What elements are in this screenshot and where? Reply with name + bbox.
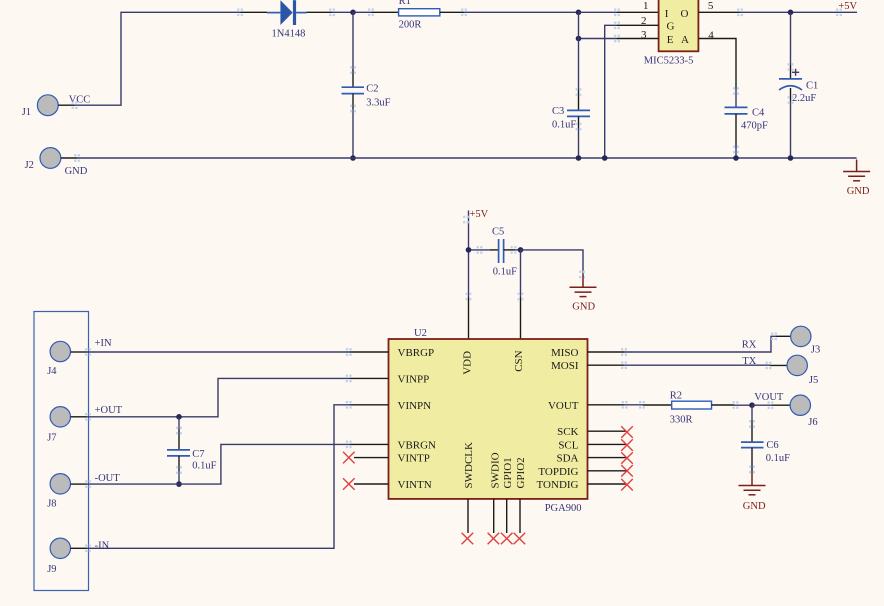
wire diode to junction bbox=[307, 9, 354, 17]
wire MOSI to J5 bbox=[588, 361, 788, 369]
svg-text:J1: J1 bbox=[22, 107, 31, 118]
svg-text:MOSI: MOSI bbox=[551, 360, 579, 372]
no-connect SWDIO bbox=[488, 499, 500, 544]
svg-text:+IN: +IN bbox=[95, 338, 112, 349]
svg-text:MIC5233-5: MIC5233-5 bbox=[644, 56, 694, 67]
svg-text:J9: J9 bbox=[47, 564, 56, 575]
svg-text:RX: RX bbox=[742, 340, 757, 351]
no-connect SCL bbox=[588, 439, 633, 451]
no-connect VINTN bbox=[343, 478, 389, 490]
svg-text:TX: TX bbox=[742, 356, 756, 367]
svg-text:J4: J4 bbox=[47, 366, 57, 377]
svg-text:5: 5 bbox=[708, 0, 714, 12]
svg-text:VINTP: VINTP bbox=[398, 453, 430, 465]
wire to MIC pin 1 bbox=[579, 9, 659, 17]
svg-text:C1: C1 bbox=[806, 81, 818, 92]
no-connect GPIO1 bbox=[501, 499, 513, 544]
connector J1 bbox=[22, 95, 75, 118]
wire junction to R1 bbox=[353, 9, 399, 17]
wire -OUT to VBRGN bbox=[85, 441, 388, 488]
svg-text:+5V: +5V bbox=[470, 209, 489, 220]
connector J9 bbox=[47, 538, 86, 575]
svg-text:J2: J2 bbox=[25, 160, 34, 171]
junction C4 bottom bbox=[733, 155, 739, 161]
svg-text:O: O bbox=[681, 8, 689, 20]
svg-text:VDD: VDD bbox=[461, 351, 473, 375]
junction C2 bottom bbox=[350, 155, 356, 161]
ground symbol middle bbox=[570, 275, 597, 312]
svg-text:GND: GND bbox=[65, 166, 88, 177]
no-connect TONDIG bbox=[588, 479, 633, 491]
diode D1 1N4148 bbox=[267, 0, 307, 39]
svg-text:3: 3 bbox=[641, 29, 647, 41]
svg-text:U2: U2 bbox=[414, 328, 427, 339]
svg-text:SCL: SCL bbox=[558, 439, 578, 451]
wire C1 branch bbox=[788, 12, 794, 79]
junction C5 right bbox=[518, 247, 524, 253]
junction C5 left bbox=[466, 247, 472, 253]
capacitor C3 0.1uF bbox=[552, 106, 590, 158]
no-connect GPIO2 bbox=[514, 499, 526, 544]
resistor R2 330R bbox=[670, 390, 712, 425]
junction C7 bottom bbox=[176, 481, 182, 487]
wire junction to J6 bbox=[752, 401, 790, 409]
svg-text:-IN: -IN bbox=[95, 541, 110, 552]
wire pin4 to C4 bbox=[698, 39, 738, 108]
svg-text:VOUT: VOUT bbox=[548, 400, 579, 412]
connector J8 bbox=[47, 474, 86, 510]
wire C2 branch bbox=[350, 12, 356, 87]
svg-text:MISO: MISO bbox=[551, 347, 579, 359]
regulator U1 MIC5233-5 bbox=[641, 0, 714, 67]
svg-text:SWDCLK: SWDCLK bbox=[463, 442, 475, 489]
IC U2 PGA900 bbox=[389, 328, 588, 514]
no-connect TOPDIG bbox=[588, 465, 633, 477]
junction C2 top bbox=[350, 10, 356, 16]
resistor R1 200R bbox=[399, 0, 440, 31]
connector J3 bbox=[791, 326, 821, 355]
svg-text:J7: J7 bbox=[47, 433, 56, 444]
svg-text:C6: C6 bbox=[766, 440, 778, 451]
svg-text:E: E bbox=[667, 34, 674, 46]
connector J6 bbox=[790, 395, 818, 428]
wire pin2 G net bbox=[605, 22, 659, 159]
capacitor C4 470pF bbox=[725, 107, 769, 158]
svg-text:470pF: 470pF bbox=[741, 121, 768, 132]
svg-text:C4: C4 bbox=[752, 108, 765, 119]
svg-text:0.1uF: 0.1uF bbox=[192, 461, 216, 472]
svg-text:GPIO1: GPIO1 bbox=[502, 457, 514, 488]
wire +OUT to VINPP bbox=[85, 375, 388, 421]
connector J2 bbox=[25, 148, 77, 172]
svg-text:C3: C3 bbox=[552, 106, 564, 117]
junction C1 bottom bbox=[788, 155, 794, 161]
no-connect SDA bbox=[588, 452, 633, 464]
svg-text:C2: C2 bbox=[366, 84, 378, 95]
junction G net to rail bbox=[602, 155, 608, 161]
svg-text:TONDIG: TONDIG bbox=[537, 479, 579, 491]
wire VOUT pin to R2 bbox=[588, 401, 672, 409]
wire VOUT to C6 bbox=[749, 405, 755, 442]
svg-text:+5V: +5V bbox=[838, 1, 857, 12]
svg-text:-OUT: -OUT bbox=[95, 473, 121, 484]
svg-text:C5: C5 bbox=[492, 227, 504, 238]
svg-text:SDA: SDA bbox=[556, 453, 578, 465]
svg-text:GND: GND bbox=[847, 186, 870, 197]
no-connect VINTP bbox=[343, 452, 389, 464]
junction C1 top bbox=[788, 10, 794, 16]
svg-text:J5: J5 bbox=[809, 375, 818, 386]
svg-text:VINTN: VINTN bbox=[398, 479, 432, 491]
svg-text:SWDIO: SWDIO bbox=[489, 452, 501, 488]
svg-text:J8: J8 bbox=[47, 499, 56, 510]
wire VCC: J1 to diode bbox=[72, 9, 267, 109]
svg-text:GND: GND bbox=[743, 501, 766, 512]
wire pin3 E net bbox=[579, 35, 659, 43]
wire C5 to ground bbox=[521, 250, 585, 278]
svg-text:G: G bbox=[667, 21, 675, 33]
svg-text:R1: R1 bbox=[399, 0, 411, 7]
svg-text:PGA900: PGA900 bbox=[545, 503, 582, 514]
svg-text:CSN: CSN bbox=[513, 350, 525, 371]
connector J4 bbox=[47, 341, 86, 377]
wire R2 to junction bbox=[712, 401, 753, 409]
svg-text:0.1uF: 0.1uF bbox=[766, 453, 790, 464]
svg-text:VINPP: VINPP bbox=[398, 373, 430, 385]
svg-text:A: A bbox=[681, 34, 689, 46]
svg-text:J3: J3 bbox=[811, 345, 820, 356]
junction R1 net / C3 column bbox=[576, 10, 582, 16]
capacitor C5 0.1uF bbox=[492, 227, 521, 278]
svg-text:VBRGP: VBRGP bbox=[398, 347, 435, 359]
wire -IN to VINPN bbox=[85, 401, 388, 552]
svg-text:3.3uF: 3.3uF bbox=[366, 97, 390, 108]
svg-text:SCK: SCK bbox=[557, 426, 578, 438]
svg-text:TOPDIG: TOPDIG bbox=[538, 466, 578, 478]
svg-text:GND: GND bbox=[572, 302, 595, 313]
wire R1 to junction bbox=[440, 9, 579, 17]
junction VOUT bbox=[749, 402, 755, 408]
svg-text:2.2uF: 2.2uF bbox=[792, 93, 816, 104]
wire +IN to VBRGP bbox=[85, 348, 388, 356]
ground symbol top right bbox=[843, 160, 870, 198]
svg-text:C7: C7 bbox=[192, 449, 204, 460]
svg-text:VINPN: VINPN bbox=[398, 400, 432, 412]
ground symbol C6 bbox=[739, 474, 766, 513]
junction C7 top bbox=[176, 414, 182, 420]
junction C3 bottom bbox=[576, 155, 582, 161]
svg-text:J6: J6 bbox=[808, 417, 817, 428]
wire pin5 +5V net bbox=[698, 9, 857, 17]
svg-text:330R: 330R bbox=[670, 415, 693, 426]
svg-text:4: 4 bbox=[708, 30, 714, 42]
svg-text:I: I bbox=[665, 8, 669, 20]
svg-text:R2: R2 bbox=[670, 390, 682, 401]
port rectangle J4-J9 bbox=[34, 312, 89, 591]
svg-text:VBRGN: VBRGN bbox=[398, 439, 437, 451]
svg-text:0.1uF: 0.1uF bbox=[493, 267, 517, 278]
svg-text:VCC: VCC bbox=[69, 95, 91, 106]
wire CSN bbox=[518, 250, 524, 339]
svg-text:GPIO2: GPIO2 bbox=[515, 457, 527, 488]
connector J7 bbox=[47, 407, 86, 444]
svg-text:0.1uF: 0.1uF bbox=[552, 120, 576, 131]
no-connect SCK bbox=[588, 426, 633, 438]
wire GND rail bbox=[74, 154, 857, 162]
capacitor C6 0.1uF bbox=[741, 440, 790, 473]
svg-text:1N4148: 1N4148 bbox=[272, 28, 306, 39]
no-connect SWDCLK bbox=[462, 499, 474, 544]
connector J5 bbox=[787, 355, 818, 386]
wire +5V to C5 and VDD bbox=[463, 211, 499, 340]
capacitor C1 2.2uF polarized bbox=[779, 69, 818, 158]
svg-text:+OUT: +OUT bbox=[95, 405, 123, 416]
svg-text:200R: 200R bbox=[399, 20, 422, 31]
wire C3 column bbox=[576, 12, 582, 110]
svg-text:1: 1 bbox=[643, 0, 649, 12]
capacitor C2 3.3uF bbox=[342, 84, 391, 158]
wire MISO to J3 bbox=[588, 333, 791, 356]
capacitor C7 0.1uF bbox=[167, 417, 217, 484]
junction E net bbox=[576, 36, 582, 42]
